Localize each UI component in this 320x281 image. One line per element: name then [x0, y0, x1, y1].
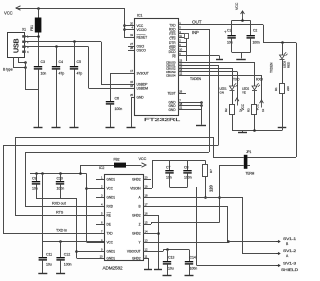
capacitor C3	[38, 65, 40, 68]
svg-text:GN: GN	[220, 91, 224, 95]
svg-text:GND1: GND1	[107, 196, 116, 200]
svg-text:100n: 100n	[190, 267, 198, 271]
svg-text:GND1: GND1	[107, 257, 116, 261]
wire JP1 bottom stub	[219, 165, 244, 167]
svg-text:C1: C1	[227, 29, 231, 33]
ground IC1 GND	[196, 125, 206, 127]
wire bus RXD-out	[25, 152, 209, 154]
wire B to SV1-1	[229, 241, 281, 243]
wire shield down to gnd net	[25, 62, 27, 89]
wire from CTS down	[186, 38, 188, 61]
USB connector X1	[8, 33, 25, 58]
wire USB pin2 D- long to IC1 USBDP	[24, 41, 101, 43]
svg-text:TXDEN: TXDEN	[190, 77, 202, 81]
svg-text:VCCIO: VCCIO	[137, 28, 147, 32]
wire USB pin3 D+ to IC1 USBDM	[24, 46, 89, 48]
ground C11	[38, 273, 47, 275]
wire CBUS2 to TXD LED column	[178, 68, 232, 70]
wire CBUS3 to VCC pullup	[178, 71, 237, 73]
wire VISOOUT to C13 C14 rail	[143, 251, 163, 253]
wire CBUS0 to RXD LED column	[178, 62, 255, 64]
wire iso VCC rail	[152, 160, 206, 162]
ground C13	[163, 275, 172, 277]
wire VCC rail top	[16, 8, 124, 10]
svg-text:GND2: GND2	[132, 178, 141, 182]
resistor R3	[252, 105, 257, 115]
svg-text:DSR: DSR	[169, 45, 176, 49]
svg-text:TXDEN: TXDEN	[270, 62, 274, 73]
svg-text:RXD: RXD	[169, 28, 176, 32]
wire bus RTS upper	[15, 137, 213, 139]
LED LED3 power red	[282, 43, 284, 55]
svg-text:VCC: VCC	[107, 241, 114, 245]
wire TXD-in row to IC2	[3, 233, 104, 235]
svg-text:RE: RE	[107, 214, 111, 218]
svg-text:X1: X1	[22, 28, 26, 32]
capacitor C10	[60, 174, 62, 182]
svg-text:GND1: GND1	[107, 178, 116, 182]
svg-text:C9: C9	[32, 177, 36, 181]
svg-text:100n: 100n	[115, 107, 123, 111]
capacitor C14	[189, 250, 191, 262]
capacitor C4	[56, 47, 58, 66]
wire VCC branch to FB2	[80, 165, 82, 174]
wire USB pin1 VBUS to FB1 node	[24, 36, 38, 38]
svg-text:RED: RED	[287, 61, 291, 68]
svg-text:SV1-3: SV1-3	[283, 262, 296, 266]
connector pin SV1-3	[276, 264, 280, 267]
svg-text:C6: C6	[115, 97, 119, 101]
wire VCC rail down to IC1 supply pins	[124, 8, 126, 37]
wire RI to ground	[178, 55, 220, 57]
ground RI	[216, 59, 223, 61]
svg-text:VCC: VCC	[139, 157, 147, 161]
svg-text:47p: 47p	[77, 72, 83, 76]
wire JP1 right side to OUT net	[250, 157, 296, 159]
capacitor C1 polarized	[231, 21, 233, 36]
power net VCC arrow	[16, 6, 21, 10]
svg-text:JP1: JP1	[246, 150, 252, 154]
svg-text:VCC: VCC	[107, 187, 114, 191]
capacitor C6	[106, 101, 114, 102]
ground C14	[185, 275, 194, 277]
svg-text:GND2: GND2	[132, 214, 141, 218]
svg-text:47p: 47p	[59, 72, 65, 76]
svg-text:R7: R7	[209, 169, 213, 173]
ground C6	[106, 127, 115, 129]
capacitor C7	[169, 161, 171, 171]
power VCC arrow CBUS3	[235, 98, 239, 101]
svg-text:TERM: TERM	[246, 172, 255, 176]
capacitor C9	[36, 174, 38, 182]
wire FB2 to VCC arrow	[126, 165, 142, 167]
svg-text:USB: USB	[14, 38, 21, 53]
node C5 tap	[73, 40, 76, 43]
ground IC1 AGND	[127, 127, 136, 129]
svg-text:C14: C14	[190, 256, 196, 260]
svg-text:RXD out: RXD out	[52, 202, 67, 206]
ferrite bead FB2	[114, 163, 126, 168]
svg-text:C4: C4	[59, 60, 63, 64]
capacitor C8	[187, 161, 189, 171]
connector pin SV1-1	[276, 240, 280, 243]
node IC1 VCC pin	[123, 24, 126, 27]
wire VCC branch to C11 C12 rail	[42, 174, 44, 242]
wire IC1 3V3OUT to C6	[110, 73, 134, 75]
svg-text:DE: DE	[107, 223, 111, 227]
ferrite bead FB1	[35, 18, 42, 33]
svg-text:C5: C5	[77, 60, 81, 64]
svg-text:10u: 10u	[168, 267, 174, 271]
connector pin SV1-2	[276, 252, 280, 255]
ground C4	[52, 127, 61, 129]
solder jumper on RTS/CTS	[185, 34, 189, 39]
wire RXD down to lower bus	[209, 29, 211, 152]
wire JP1 top stub	[213, 157, 244, 159]
power VCC arrow top right	[242, 11, 244, 18]
IC2 left pin stubs	[96, 179, 104, 181]
svg-text:10n: 10n	[166, 176, 172, 180]
wire GND2 pins to ground b	[143, 215, 158, 217]
wire shield net to SV1-3	[196, 187, 198, 266]
svg-text:RXD: RXD	[256, 78, 264, 82]
svg-text:VISOIN: VISOIN	[130, 187, 141, 191]
wire JP1 to Z net	[219, 166, 221, 223]
svg-text:C13: C13	[168, 256, 174, 260]
svg-text:FB2: FB2	[114, 158, 120, 162]
wire VCC down to IC2 VCC pins	[86, 174, 88, 243]
ground C12	[56, 273, 65, 275]
wire RTS row to IC2	[15, 215, 104, 217]
capacitor C12	[60, 241, 62, 257]
svg-text:YE: YE	[242, 91, 246, 95]
wire GND2 pin20 stub	[143, 179, 151, 181]
wire GND2 pin11 to ground	[143, 258, 148, 260]
wire gnd link down to IC2 GND1	[76, 198, 78, 258]
svg-text:IC2: IC2	[99, 166, 104, 170]
svg-text:RESET: RESET	[137, 36, 148, 40]
svg-text:TXD: TXD	[107, 232, 114, 236]
LED LED2 RXD	[252, 86, 257, 90]
svg-text:TXD in: TXD in	[56, 229, 67, 233]
wire R7 to A net	[205, 176, 207, 197]
ground GND2 b	[154, 269, 162, 271]
wire C7 C8 bottom link	[170, 187, 188, 189]
op-amp U1 IC1 FT232RL body	[135, 19, 179, 116]
node VCC junction at FB1	[37, 7, 40, 10]
wire FB1 to USB VBUS node	[38, 33, 40, 66]
resistor R7 termination	[205, 161, 207, 165]
svg-text:IC1: IC1	[137, 14, 142, 18]
wire Y net join B	[143, 242, 229, 244]
svg-text:C3: C3	[41, 60, 45, 64]
capacitor C11	[42, 241, 44, 257]
ground C3	[34, 127, 43, 129]
wire bus TXD-in	[3, 145, 218, 147]
svg-text:CTS: CTS	[169, 36, 176, 40]
wire C9 C10 gnd link	[36, 198, 77, 200]
node IC1 VCCIO pin	[123, 28, 126, 31]
node TXD LED branch	[281, 41, 284, 44]
node C4 tap	[55, 45, 58, 48]
ground GND2 a	[144, 269, 152, 271]
power VCC arrow at FB2	[142, 163, 147, 167]
svg-text:FT232RL: FT232RL	[144, 117, 181, 122]
svg-text:C11: C11	[46, 253, 52, 257]
svg-text:220: 220	[286, 86, 290, 91]
wire CBUS4 to VCC pullup	[178, 75, 262, 77]
IC1 OSCO pin stub	[128, 50, 134, 52]
wire B net	[143, 206, 227, 208]
ground LED rail left	[242, 131, 244, 133]
svg-text:ADM2582: ADM2582	[103, 265, 124, 270]
svg-text:SV1-2: SV1-2	[283, 249, 296, 253]
capacitor C13	[167, 250, 169, 262]
svg-text:RTS: RTS	[56, 211, 64, 215]
svg-text:Z: Z	[139, 223, 141, 227]
wire to IC1 RESET pin	[124, 37, 134, 39]
wire VISOIN to iso rail	[143, 188, 152, 190]
wire from VCC rail down to FB1	[38, 8, 40, 18]
svg-text:RXD: RXD	[107, 205, 114, 209]
wire cap bottom rail	[232, 52, 251, 54]
transistor Q1 IC2 ADM2582 body	[105, 175, 144, 261]
wire DCD stub	[178, 51, 186, 53]
svg-text:VCC: VCC	[4, 11, 13, 16]
capacitor C2	[250, 21, 252, 36]
svg-text:GND1: GND1	[107, 250, 116, 254]
ground C1 C2	[236, 59, 246, 61]
wire C11 C12 top rail	[43, 241, 104, 243]
LED LED1 TXD	[230, 86, 235, 90]
svg-text:SHIELD: SHIELD	[281, 268, 299, 272]
svg-text:B type: B type	[3, 68, 13, 72]
svg-text:GND2: GND2	[132, 257, 141, 261]
svg-text:10n: 10n	[41, 72, 47, 76]
wire USB shield stubs	[13, 57, 15, 67]
wire TXD net OUT	[178, 24, 263, 26]
svg-text:USBDM: USBDM	[137, 87, 149, 91]
svg-text:120: 120	[209, 185, 214, 192]
svg-text:C2: C2	[253, 29, 257, 33]
capacitor C5	[74, 42, 76, 66]
svg-text:C10: C10	[57, 177, 63, 181]
svg-text:C7: C7	[166, 166, 170, 170]
wire DTR stub	[178, 42, 186, 44]
svg-text:RI: RI	[172, 54, 175, 58]
svg-text:OUT: OUT	[192, 20, 202, 25]
wire IC1 AGND pin 25 to ground	[131, 97, 134, 99]
svg-text:DCD: DCD	[169, 50, 177, 54]
svg-text:TEST: TEST	[167, 91, 175, 95]
svg-text:100n: 100n	[64, 263, 72, 267]
wire IC1 GND pins to common	[178, 102, 201, 104]
svg-text:OSCO: OSCO	[137, 49, 147, 53]
svg-text:CBUS4: CBUS4	[166, 73, 176, 77]
power VCC arrow CBUS4	[260, 100, 264, 103]
svg-text:GND2: GND2	[132, 232, 141, 236]
wire OUT down right edge	[296, 43, 298, 157]
svg-text:DTR: DTR	[169, 41, 176, 45]
svg-text:FB1: FB1	[30, 25, 34, 31]
wire A net to SV1-2	[143, 197, 242, 199]
resistor R1	[280, 84, 285, 94]
svg-text:SV1-1: SV1-1	[283, 237, 296, 241]
svg-text:C12: C12	[64, 253, 70, 257]
wire RXD net INP	[178, 29, 209, 31]
ground C5	[70, 127, 79, 129]
wire DSR stub	[178, 46, 186, 48]
wire IC2 GND1 pin1 pin3 stubs	[96, 179, 98, 181]
svg-text:C8: C8	[184, 166, 188, 170]
svg-text:GND: GND	[137, 96, 145, 100]
wire VCC to cap rail	[242, 18, 244, 21]
wire LED bottom rail	[232, 130, 282, 132]
svg-text:B: B	[138, 205, 140, 209]
resistor R2	[230, 105, 235, 115]
svg-text:GND: GND	[168, 108, 176, 112]
svg-text:R3: R3	[247, 108, 251, 112]
wire CBUS1 down to lower bus	[178, 65, 219, 67]
jumper JP1 TERM	[244, 155, 248, 169]
svg-text:3V3OUT: 3V3OUT	[137, 72, 149, 76]
svg-text:INP: INP	[192, 30, 199, 35]
wire VCC rail caps C9 C10	[30, 173, 87, 175]
svg-text:VISOOUT: VISOOUT	[127, 250, 141, 254]
svg-text:TXD: TXD	[233, 78, 240, 82]
wire RXD-out row to IC2	[25, 206, 104, 208]
IC1 OSCI pin stub	[128, 46, 134, 48]
svg-text:10u: 10u	[46, 263, 52, 267]
svg-text:R2: R2	[224, 108, 228, 112]
svg-text:R1: R1	[274, 87, 278, 91]
svg-text:VCC: VCC	[235, 2, 239, 10]
svg-text:100n: 100n	[253, 41, 260, 45]
ground LED rail right	[278, 127, 287, 129]
wire TEST stub	[178, 93, 186, 95]
